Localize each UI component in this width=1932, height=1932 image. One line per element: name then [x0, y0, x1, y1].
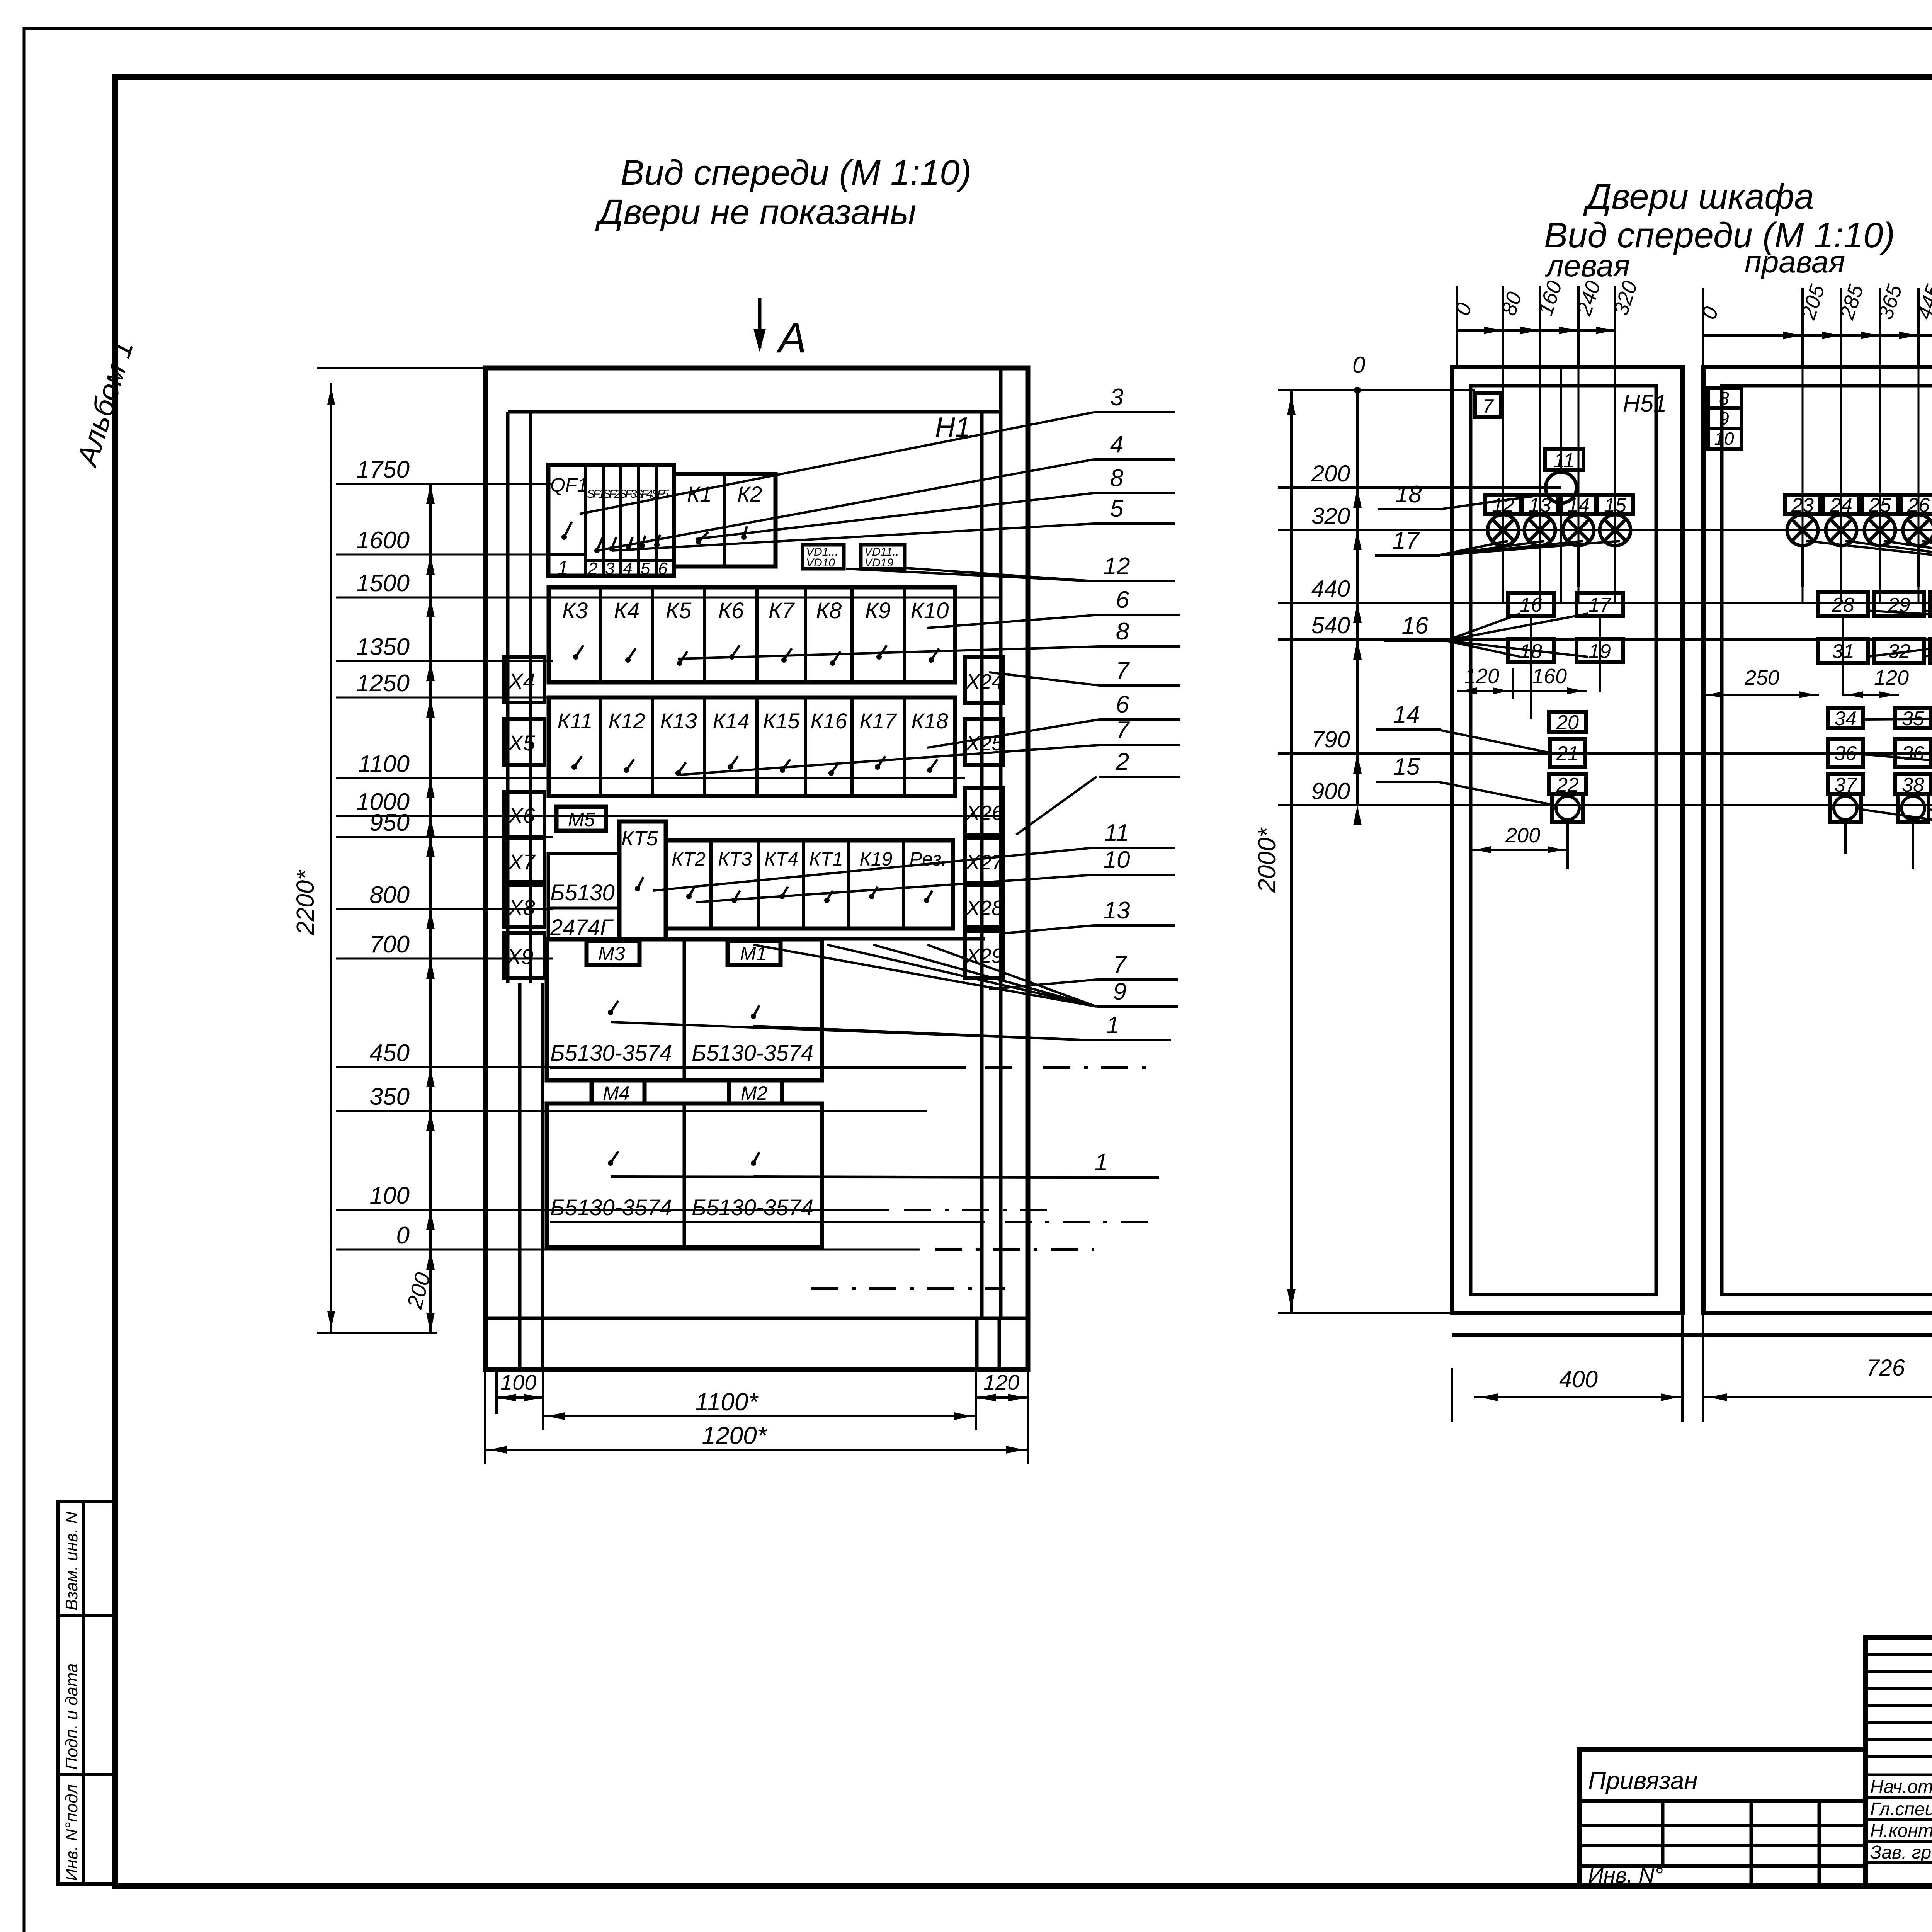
terminal X27: [965, 838, 1003, 883]
svg-text:200: 200: [1311, 461, 1350, 486]
terminal X5: [504, 719, 544, 765]
svg-text:17: 17: [1393, 527, 1420, 554]
svg-text:8: 8: [1116, 618, 1129, 645]
plates 12-15: [1485, 495, 1521, 514]
svg-text:К5: К5: [666, 598, 692, 623]
svg-text:К8: К8: [816, 598, 842, 623]
terminal X25: [965, 719, 1003, 765]
left door outer: [1452, 367, 1682, 1313]
svg-text:Б5130-3574: Б5130-3574: [692, 1041, 813, 1066]
svg-text:12: 12: [1104, 553, 1130, 580]
relay row K11-K18: [549, 697, 955, 796]
svg-text:160: 160: [1532, 665, 1567, 688]
dim line 1100: [336, 777, 965, 779]
signatures table: [1866, 1638, 1932, 1887]
svg-text:Х26: Х26: [965, 801, 1003, 825]
centerline dashes: [904, 1209, 1059, 1211]
door dim line 900: [1278, 804, 1932, 806]
svg-text:4: 4: [1110, 431, 1123, 458]
svg-text:К19: К19: [859, 848, 892, 870]
svg-text:16: 16: [1520, 594, 1542, 616]
plates 28 29 30: [1818, 592, 1868, 616]
svg-text:Рез.: Рез.: [909, 848, 947, 870]
svg-text:100: 100: [500, 1370, 536, 1395]
svg-text:Х29: Х29: [965, 944, 1003, 968]
svg-text:16: 16: [1402, 612, 1429, 639]
svg-text:1: 1: [1095, 1149, 1108, 1176]
svg-text:Х5: Х5: [508, 731, 535, 755]
svg-text:Н51: Н51: [1623, 390, 1667, 417]
plate 11: [1545, 449, 1583, 470]
svg-text:36: 36: [1834, 742, 1857, 765]
shelf line: [619, 937, 985, 941]
svg-text:КТ4: КТ4: [764, 848, 798, 870]
svg-text:700: 700: [370, 931, 410, 958]
svg-text:М2: М2: [741, 1082, 768, 1104]
diode block VD11..VD19: [861, 545, 905, 569]
svg-text:Зав. гр.: Зав. гр.: [1870, 1842, 1932, 1863]
svg-text:540: 540: [1311, 612, 1350, 638]
panel row 1 with M3 M1: [547, 939, 822, 1080]
svg-text:2000*: 2000*: [1253, 827, 1281, 893]
svg-text:320: 320: [1311, 503, 1350, 529]
dim line 1250: [336, 697, 553, 699]
svg-text:1250: 1250: [356, 670, 410, 697]
svg-text:Нач.отд.: Нач.отд.: [1870, 1777, 1932, 1797]
svg-text:М3: М3: [598, 943, 625, 964]
svg-text:4: 4: [623, 559, 632, 578]
cabinet outer box: [485, 368, 1028, 1370]
cabinet bottom member line: [485, 1317, 1028, 1320]
svg-text:2: 2: [588, 559, 597, 578]
doors height dim 2000*: [1290, 390, 1293, 1313]
door dim line 540: [1278, 638, 1932, 641]
svg-text:11: 11: [1104, 820, 1129, 846]
dim 1200*: [485, 1449, 1028, 1451]
svg-text:К17: К17: [859, 709, 897, 733]
diode block VD1...VD10: [803, 545, 844, 569]
top dims right door: [1703, 334, 1932, 337]
terminal X28: [965, 885, 1003, 927]
contactor row K3-K10: [549, 587, 955, 682]
svg-text:Х27: Х27: [965, 851, 1004, 874]
svg-text:7: 7: [1116, 717, 1130, 743]
svg-text:К14: К14: [713, 709, 749, 733]
svg-text:1600: 1600: [356, 527, 410, 554]
svg-text:726: 726: [1866, 1355, 1905, 1381]
svg-text:8: 8: [1110, 465, 1124, 492]
dim line 450: [336, 1066, 927, 1068]
doors running dim line: [1356, 390, 1359, 805]
door dim line 0: [1278, 389, 1475, 391]
svg-text:К6: К6: [718, 598, 744, 623]
svg-text:VD19: VD19: [864, 556, 893, 569]
svg-text:7: 7: [1483, 395, 1494, 417]
svg-text:950: 950: [370, 810, 410, 836]
svg-text:400: 400: [1559, 1366, 1598, 1392]
svg-text:790: 790: [1311, 726, 1350, 752]
breaker block QF1,SF1-SF5: [548, 465, 674, 576]
svg-text:100: 100: [370, 1182, 410, 1209]
svg-text:Х7: Х7: [508, 850, 536, 874]
svg-text:КТ3: КТ3: [718, 848, 752, 870]
svg-text:6: 6: [658, 559, 668, 578]
timer row KT2,KT3,KT4,KT1,K19,Rez: [666, 840, 953, 929]
svg-text:3: 3: [605, 559, 615, 578]
svg-text:13: 13: [1104, 897, 1130, 924]
svg-text:К15: К15: [763, 709, 800, 733]
svg-text:Инв. N°: Инв. N°: [1588, 1863, 1663, 1887]
svg-text:Гл.спец.: Гл.спец.: [1870, 1799, 1932, 1820]
bottom width dims: [484, 1370, 486, 1464]
module M5: [556, 807, 606, 831]
svg-text:7: 7: [1116, 657, 1130, 684]
dim line 350: [336, 1110, 927, 1112]
left margin stamp table: [58, 1502, 116, 1884]
svg-text:К11: К11: [557, 709, 592, 733]
lamps in squares right door: [1830, 794, 1861, 822]
privyazan table: [1580, 1749, 1866, 1887]
svg-text:Инв. N°подл: Инв. N°подл: [62, 1784, 81, 1881]
svg-text:Б5130: Б5130: [550, 880, 615, 905]
svg-text:К12: К12: [608, 709, 645, 733]
svg-text:11: 11: [1554, 449, 1575, 472]
svg-text:15: 15: [1393, 753, 1420, 780]
svg-text:КТ2: КТ2: [672, 848, 706, 870]
svg-text:350: 350: [370, 1083, 410, 1110]
svg-text:0: 0: [1352, 352, 1365, 378]
svg-text:10: 10: [1714, 429, 1734, 449]
leader lines left view: [580, 412, 1094, 514]
door dim line 790: [1278, 752, 1932, 755]
lamps left door: [1488, 515, 1519, 546]
svg-text:К13: К13: [660, 709, 697, 733]
dim line 1500: [336, 597, 1001, 599]
plates 16 17: [1508, 593, 1554, 616]
lamps right door: [1787, 515, 1818, 546]
svg-text:Подп. и дата: Подп. и дата: [62, 1663, 81, 1770]
svg-text:900: 900: [1311, 778, 1350, 804]
svg-text:Х9: Х9: [506, 944, 534, 969]
terminal X6: [504, 792, 544, 837]
dim line 700: [336, 958, 553, 960]
label plate 7: [1475, 393, 1501, 417]
left door inner: [1471, 386, 1656, 1294]
door dim line 440: [1278, 602, 1932, 604]
svg-text:28: 28: [1832, 594, 1854, 616]
svg-text:6: 6: [1116, 691, 1129, 718]
top dims left door: [1457, 329, 1615, 332]
svg-text:К2: К2: [737, 482, 762, 506]
svg-text:120: 120: [983, 1370, 1019, 1395]
plates 37 38: [1828, 774, 1863, 794]
plates 36 36: [1828, 739, 1863, 767]
svg-text:120: 120: [1464, 665, 1499, 688]
svg-text:1750: 1750: [356, 456, 410, 483]
cabinet feet: [518, 1318, 522, 1370]
overall height dim 2200*: [330, 383, 332, 1333]
running dim line: [429, 484, 432, 1333]
svg-text:17: 17: [1588, 594, 1612, 616]
svg-text:21: 21: [1556, 742, 1579, 765]
svg-text:440: 440: [1311, 576, 1350, 602]
svg-text:14: 14: [1393, 701, 1420, 728]
dim 726 right door: [1703, 1396, 1932, 1398]
svg-text:Б5130-3574: Б5130-3574: [692, 1195, 813, 1220]
label plates 8 9 10: [1708, 388, 1742, 408]
svg-text:1: 1: [558, 557, 568, 578]
door dim line 200: [1278, 486, 1561, 489]
dim line 1000: [336, 815, 1001, 817]
doors bottom hem line: [1452, 1333, 1932, 1337]
lamp in square left door: [1552, 794, 1583, 822]
svg-text:К18: К18: [911, 709, 948, 733]
dim line 1350: [336, 660, 553, 662]
svg-text:К9: К9: [865, 598, 891, 623]
terminal X8: [504, 885, 544, 927]
contactor block K1 K2: [674, 474, 776, 566]
svg-text:8: 8: [1719, 388, 1729, 408]
svg-text:250: 250: [1744, 666, 1779, 689]
svg-text:К10: К10: [911, 598, 949, 623]
svg-text:3: 3: [1110, 384, 1123, 411]
svg-text:Б5130-3574: Б5130-3574: [550, 1195, 672, 1220]
svg-text:КТ1: КТ1: [809, 848, 843, 870]
dim 1100*: [543, 1415, 976, 1417]
svg-text:Привязан: Привязан: [1588, 1767, 1698, 1794]
svg-text:КТ5: КТ5: [621, 827, 658, 850]
svg-text:120: 120: [1874, 666, 1909, 689]
svg-text:10: 10: [1104, 847, 1130, 873]
plates 18 19: [1508, 639, 1554, 662]
svg-text:К4: К4: [614, 598, 639, 623]
svg-text:7: 7: [1113, 951, 1128, 978]
svg-text:200: 200: [1505, 824, 1540, 847]
svg-text:800: 800: [370, 882, 410, 908]
svg-text:Взам. инв. N: Взам. инв. N: [62, 1512, 81, 1611]
svg-text:К16: К16: [810, 709, 847, 733]
dim 120 160 left door: [1457, 690, 1587, 692]
svg-text:Н.контр.: Н.контр.: [1870, 1821, 1932, 1841]
svg-text:2: 2: [1116, 748, 1129, 775]
svg-text:1100*: 1100*: [695, 1388, 759, 1416]
dim 250 right door: [1703, 694, 1819, 696]
svg-text:1: 1: [1106, 1012, 1119, 1039]
svg-text:9: 9: [1113, 978, 1126, 1005]
svg-text:правая: правая: [1745, 245, 1845, 279]
cabinet top member line: [508, 410, 1001, 414]
svg-text:Х4: Х4: [508, 669, 535, 693]
svg-text:М5: М5: [568, 809, 595, 830]
plates 31 32 33: [1818, 639, 1868, 663]
plates 23-27: [1785, 495, 1820, 514]
view direction arrow A: [758, 298, 762, 348]
timer KT5: [619, 821, 666, 939]
right door outer: [1703, 367, 1932, 1313]
svg-text:Вид спереди (М 1:10): Вид спереди (М 1:10): [621, 153, 971, 192]
svg-text:1200*: 1200*: [702, 1422, 767, 1449]
dim 400 left door: [1451, 1368, 1453, 1422]
svg-text:5: 5: [1110, 495, 1124, 522]
svg-text:Двери шкафа: Двери шкафа: [1583, 177, 1814, 216]
svg-text:К1: К1: [687, 482, 712, 506]
plates 34 35: [1828, 708, 1863, 728]
dim 200 left door: [1471, 849, 1568, 851]
button circle: [1546, 472, 1577, 503]
svg-text:М4: М4: [603, 1082, 629, 1104]
door dim line 320: [1278, 529, 1932, 531]
dim line 100: [336, 1209, 889, 1211]
svg-text:450: 450: [370, 1040, 410, 1066]
svg-text:VD10: VD10: [806, 556, 835, 569]
svg-text:18: 18: [1395, 481, 1422, 508]
dim line 1600: [336, 554, 553, 556]
svg-text:К3: К3: [562, 598, 588, 623]
terminal X7: [504, 838, 544, 882]
svg-text:6: 6: [1116, 587, 1129, 613]
svg-text:5: 5: [641, 559, 650, 578]
plates 20 21 22 and lamp: [1549, 712, 1586, 732]
svg-text:А: А: [776, 314, 806, 362]
svg-text:левая: левая: [1545, 248, 1630, 283]
dim 120 right door: [1843, 694, 1899, 696]
svg-text:К7: К7: [769, 598, 795, 623]
svg-text:1100: 1100: [358, 751, 410, 777]
svg-text:Х8: Х8: [508, 895, 535, 920]
dim line 800: [336, 908, 553, 910]
terminal X24: [965, 657, 1003, 703]
block B5130/2474G area: [548, 854, 619, 939]
panel row 2 with M4 M2: [547, 1104, 822, 1247]
svg-text:1350: 1350: [356, 634, 410, 660]
door leader lines: [1439, 494, 1550, 509]
svg-text:Х28: Х28: [965, 896, 1003, 920]
cabinet inner frame verticals: [506, 412, 510, 983]
terminal X9: [504, 933, 544, 978]
svg-text:34: 34: [1834, 707, 1857, 730]
svg-text:2474Г: 2474Г: [550, 915, 614, 940]
svg-text:Двери не показаны: Двери не показаны: [595, 192, 917, 232]
svg-text:9: 9: [1719, 408, 1729, 429]
svg-text:1500: 1500: [356, 570, 410, 597]
dim line 0: [336, 1249, 920, 1251]
svg-text:2200*: 2200*: [291, 870, 319, 935]
right door inner: [1722, 386, 1932, 1294]
terminal X4: [504, 657, 544, 702]
svg-text:Б5130-3574: Б5130-3574: [550, 1041, 672, 1066]
svg-text:QF1: QF1: [550, 474, 588, 496]
terminal X26: [965, 788, 1003, 835]
svg-text:20: 20: [1556, 711, 1579, 734]
dim line 1750: [336, 483, 553, 485]
svg-text:0: 0: [396, 1222, 410, 1249]
dim line 950: [336, 836, 553, 838]
svg-text:36: 36: [1902, 742, 1924, 765]
terminal X29: [965, 931, 1003, 978]
